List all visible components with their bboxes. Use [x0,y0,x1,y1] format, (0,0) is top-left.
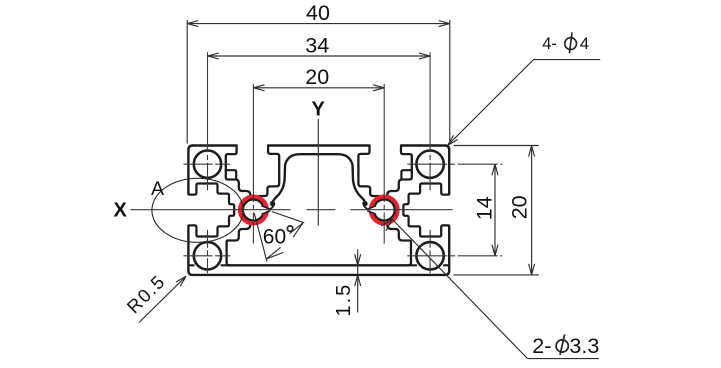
corner holes vertical centerlines [207,52,209,190]
top-left slot inner lip hook [259,147,279,196]
top-right slot inner lip hook [358,147,378,196]
dimension 1.5 line [357,249,359,312]
svg-text:2-: 2- [532,334,551,358]
svg-text:20: 20 [508,195,532,219]
profile outer boundary (top face, sides, bottom face) [193,144,237,146]
central bell left half [273,154,319,203]
label 4-phi4 leader [534,59,601,61]
dimension 40 extension lines [186,20,188,144]
label R0.5 leader [139,276,186,322]
bottom-left staircase and inner bottom wall [227,223,319,265]
corner hole bottom-left (phi 4) [194,242,221,269]
bottom-right staircase and inner bottom wall [319,223,411,265]
top-right corner block lower channel [401,170,411,178]
svg-text:40: 40 [306,1,330,25]
top-right slot outer lip staircase [387,147,412,196]
X axis centerline [131,209,291,211]
svg-text:34: 34 [305,33,329,57]
dimension 40 line [187,23,450,25]
top-left corner block lower channel [226,170,236,178]
right side T-slot [403,184,448,237]
dimension 34 line [208,55,431,57]
svg-text:60: 60 [263,225,286,248]
svg-text:Y: Y [312,98,326,120]
inner bottom wall segments through corner blocks [188,264,193,266]
svg-text:R0.5: R0.5 [122,270,169,317]
dimension 20 extension lines (height) [454,145,539,147]
dimension 20 line (height) [531,146,533,275]
center holes vertical centerlines [252,84,254,244]
label 2-phi3.3 leader [528,358,600,360]
detail ellipse A [152,178,243,242]
corner hole bottom-right (phi 4) [416,242,443,269]
svg-text:4-: 4- [542,35,557,53]
dimension 14 line [494,164,496,256]
Y axis centerline [317,119,319,226]
60 degree angle annotation [272,212,304,223]
svg-text:3.3: 3.3 [569,334,599,358]
corner hole top-right (phi 4) [416,151,443,178]
svg-text:1.5: 1.5 [333,283,355,317]
svg-text:20: 20 [305,65,329,89]
svg-text:A: A [151,178,164,200]
svg-text:X: X [114,199,128,221]
center hole left (phi 3.3) with red highlight ring [240,197,267,224]
left side T-slot [189,184,234,237]
svg-text:14: 14 [472,196,496,220]
dimension 20 line (hole pitch) [253,87,384,89]
corner holes horizontal centerlines [184,163,231,165]
center hole right (phi 3.3) with red highlight ring [371,197,398,224]
corner hole top-left (phi 4) [194,151,221,178]
svg-text:4: 4 [580,35,589,53]
top-left slot outer lip staircase [226,147,251,196]
central bell right half [319,154,365,203]
